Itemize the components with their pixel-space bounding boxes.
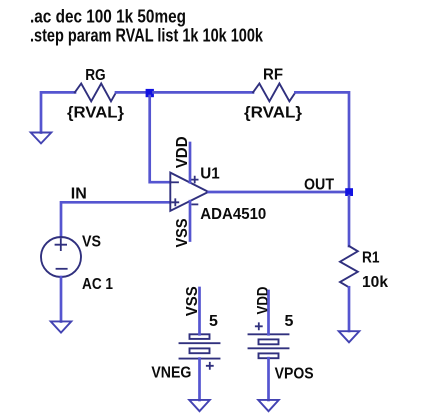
svg-text:VDD: VDD: [174, 136, 191, 168]
wire: [41, 92, 75, 132]
svg-text:5: 5: [209, 313, 218, 330]
wire: [150, 96, 170, 182]
svg-text:OUT: OUT: [304, 177, 334, 194]
wire: [198, 359, 201, 400]
battery VPOS: [249, 287, 314, 383]
resistor RG: [67, 67, 124, 122]
ground: [31, 133, 52, 144]
svg-text:5: 5: [285, 313, 294, 330]
node junction B: [345, 188, 353, 196]
wire: [154, 91, 254, 94]
svg-text:.ac dec 100 1k 50meg: .ac dec 100 1k 50meg: [30, 7, 186, 27]
svg-text:IN: IN: [71, 185, 87, 202]
svg-text:VNEG: VNEG: [151, 364, 191, 381]
ground: [189, 400, 210, 411]
node junction A: [146, 89, 154, 97]
svg-text:RG: RG: [85, 67, 106, 84]
svg-text:.step param RVAL list 1k 10k 1: .step param RVAL list 1k 10k 100k: [30, 26, 264, 46]
ground: [339, 331, 360, 342]
svg-text:{RVAL}: {RVAL}: [67, 105, 124, 122]
svg-text:AC 1: AC 1: [82, 276, 113, 293]
wire: [116, 91, 146, 94]
wire: [348, 196, 351, 246]
svg-text:VSS: VSS: [174, 218, 191, 247]
svg-text:10k: 10k: [362, 274, 388, 291]
wire: [198, 288, 201, 334]
svg-text:R1: R1: [362, 250, 380, 267]
wire OUT: [209, 191, 345, 194]
resistor RF: [244, 67, 302, 122]
wire: [267, 291, 270, 334]
wire: [60, 277, 63, 322]
wire: [267, 358, 270, 400]
svg-text:VPOS: VPOS: [275, 365, 314, 382]
wire: [61, 202, 170, 237]
svg-text:ADA4510: ADA4510: [200, 206, 266, 223]
svg-text:VS: VS: [82, 234, 101, 251]
ground: [258, 400, 279, 411]
wire: [348, 287, 351, 331]
voltage source VS: [41, 234, 113, 294]
svg-text:U1: U1: [200, 166, 219, 183]
ground: [51, 321, 72, 332]
wire: [295, 92, 349, 188]
battery VNEG: [151, 286, 219, 382]
op-amp U1: [170, 166, 266, 224]
svg-text:{RVAL}: {RVAL}: [244, 105, 302, 122]
svg-text:RF: RF: [263, 67, 283, 84]
wire V+ pin stub: [189, 143, 192, 182]
resistor R1: [340, 246, 388, 291]
wire V- pin stub: [189, 201, 192, 240]
